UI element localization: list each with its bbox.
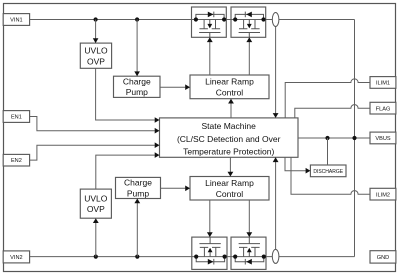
- wire OUT vertical: [354, 20, 356, 257]
- wire top current sense to SM: [273, 27, 279, 118]
- block Charge Pump 2: [116, 177, 161, 198]
- wire LRC2 gate Q4: [246, 200, 252, 237]
- wire CP2 feed: [134, 199, 140, 257]
- wire VBUS to DISCHARGE: [327, 138, 329, 165]
- pin EN1: [3, 111, 29, 123]
- svg-text:State Machine: State Machine: [202, 121, 257, 131]
- block UVLO OVP 2: [80, 189, 111, 218]
- wire FLAG to SM: [295, 105, 370, 118]
- node VBUS-DISCHARGE junction: [325, 136, 329, 140]
- pin VIN1: [3, 14, 29, 26]
- wire SM to DISCHARGE: [285, 157, 310, 173]
- node VIN2-UVLO2 junction: [94, 255, 98, 259]
- wire EN1: [30, 117, 160, 134]
- svg-text:(CL/SC Detection and Over: (CL/SC Detection and Over: [177, 134, 281, 144]
- block UVLO OVP 1: [80, 43, 111, 68]
- wire VBUS to SM: [298, 137, 370, 139]
- wire EN2: [30, 142, 160, 160]
- svg-text:Charge: Charge: [124, 178, 152, 188]
- svg-text:DISCHARGE: DISCHARGE: [313, 169, 343, 175]
- current sense top: [272, 13, 279, 27]
- svg-text:UVLO: UVLO: [84, 193, 108, 203]
- transistor Q1 internals: [194, 12, 226, 38]
- svg-text:GND: GND: [377, 255, 389, 261]
- svg-text:Pump: Pump: [127, 188, 149, 198]
- svg-text:FLAG: FLAG: [376, 106, 391, 112]
- pin EN2: [3, 154, 29, 166]
- svg-text:VIN1: VIN1: [10, 18, 22, 24]
- transistor Q4 internals: [233, 237, 266, 264]
- node VIN1-CP1 junction: [135, 17, 139, 21]
- wire VIN1 rail: [30, 19, 355, 21]
- wire CP2 to LRC2: [161, 186, 191, 192]
- block State Machine: [160, 118, 299, 157]
- pin ILIM1: [370, 77, 396, 89]
- svg-text:ILIM1: ILIM1: [376, 81, 390, 87]
- transistor Q1 box: [192, 7, 227, 37]
- svg-text:EN2: EN2: [11, 158, 22, 164]
- node VIN2-CP2 junction: [135, 255, 139, 259]
- transistor Q2 internals: [233, 12, 266, 38]
- node VIN1-UVLO1 junction: [94, 17, 98, 21]
- block Linear Ramp Control 2: [190, 177, 269, 201]
- wire SM to LRC1: [228, 99, 234, 118]
- svg-text:OVP: OVP: [87, 204, 105, 214]
- svg-text:VBUS: VBUS: [375, 136, 391, 142]
- current sense bottom: [272, 249, 279, 263]
- svg-text:Linear Ramp: Linear Ramp: [205, 77, 254, 87]
- block Charge Pump 1: [114, 76, 161, 97]
- pin ILIM2: [370, 188, 396, 200]
- transistor Q2 box: [231, 7, 266, 37]
- wire bottom current sense to SM: [273, 157, 279, 249]
- pin FLAG: [370, 102, 396, 114]
- svg-text:Control: Control: [216, 189, 244, 199]
- wire CP1 to LRC1: [160, 84, 190, 90]
- block DISCHARGE: [310, 165, 346, 177]
- wire VIN2 rail: [30, 256, 355, 258]
- transistor Q4 box: [231, 237, 266, 269]
- svg-text:Temperature Protection): Temperature Protection): [183, 147, 274, 157]
- svg-text:EN1: EN1: [11, 115, 22, 121]
- transistor Q3 box: [192, 237, 227, 269]
- wire SM to LRC2: [228, 157, 234, 176]
- wire UVLO1 feed: [93, 20, 99, 44]
- wire SM to ILIM2: [291, 157, 370, 194]
- wire LRC2 gate Q3: [207, 200, 213, 237]
- node VBUS-OUT junction: [352, 136, 356, 140]
- wire LRC1 gate Q1: [207, 37, 213, 75]
- wire ILIM1 to SM: [285, 79, 370, 118]
- svg-text:OVP: OVP: [87, 56, 105, 66]
- svg-text:ILIM2: ILIM2: [376, 192, 390, 198]
- wire UVLO2 to SM: [96, 152, 160, 189]
- wire CP1 feed: [134, 20, 140, 77]
- svg-text:Control: Control: [216, 87, 244, 97]
- pin VIN2: [3, 251, 29, 263]
- pin GND: [370, 251, 396, 263]
- svg-text:Charge: Charge: [123, 76, 151, 86]
- svg-text:VIN2: VIN2: [10, 255, 22, 261]
- svg-text:Linear Ramp: Linear Ramp: [205, 178, 254, 188]
- wire UVLO2 feed: [93, 218, 99, 256]
- wire UVLO1 to SM: [96, 68, 160, 123]
- svg-text:UVLO: UVLO: [84, 46, 108, 56]
- transistor Q3 internals: [194, 237, 227, 264]
- wire LRC1 gate Q2: [246, 37, 252, 75]
- block Linear Ramp Control 1: [190, 75, 269, 99]
- svg-text:Pump: Pump: [126, 87, 148, 97]
- pin VBUS: [370, 132, 396, 144]
